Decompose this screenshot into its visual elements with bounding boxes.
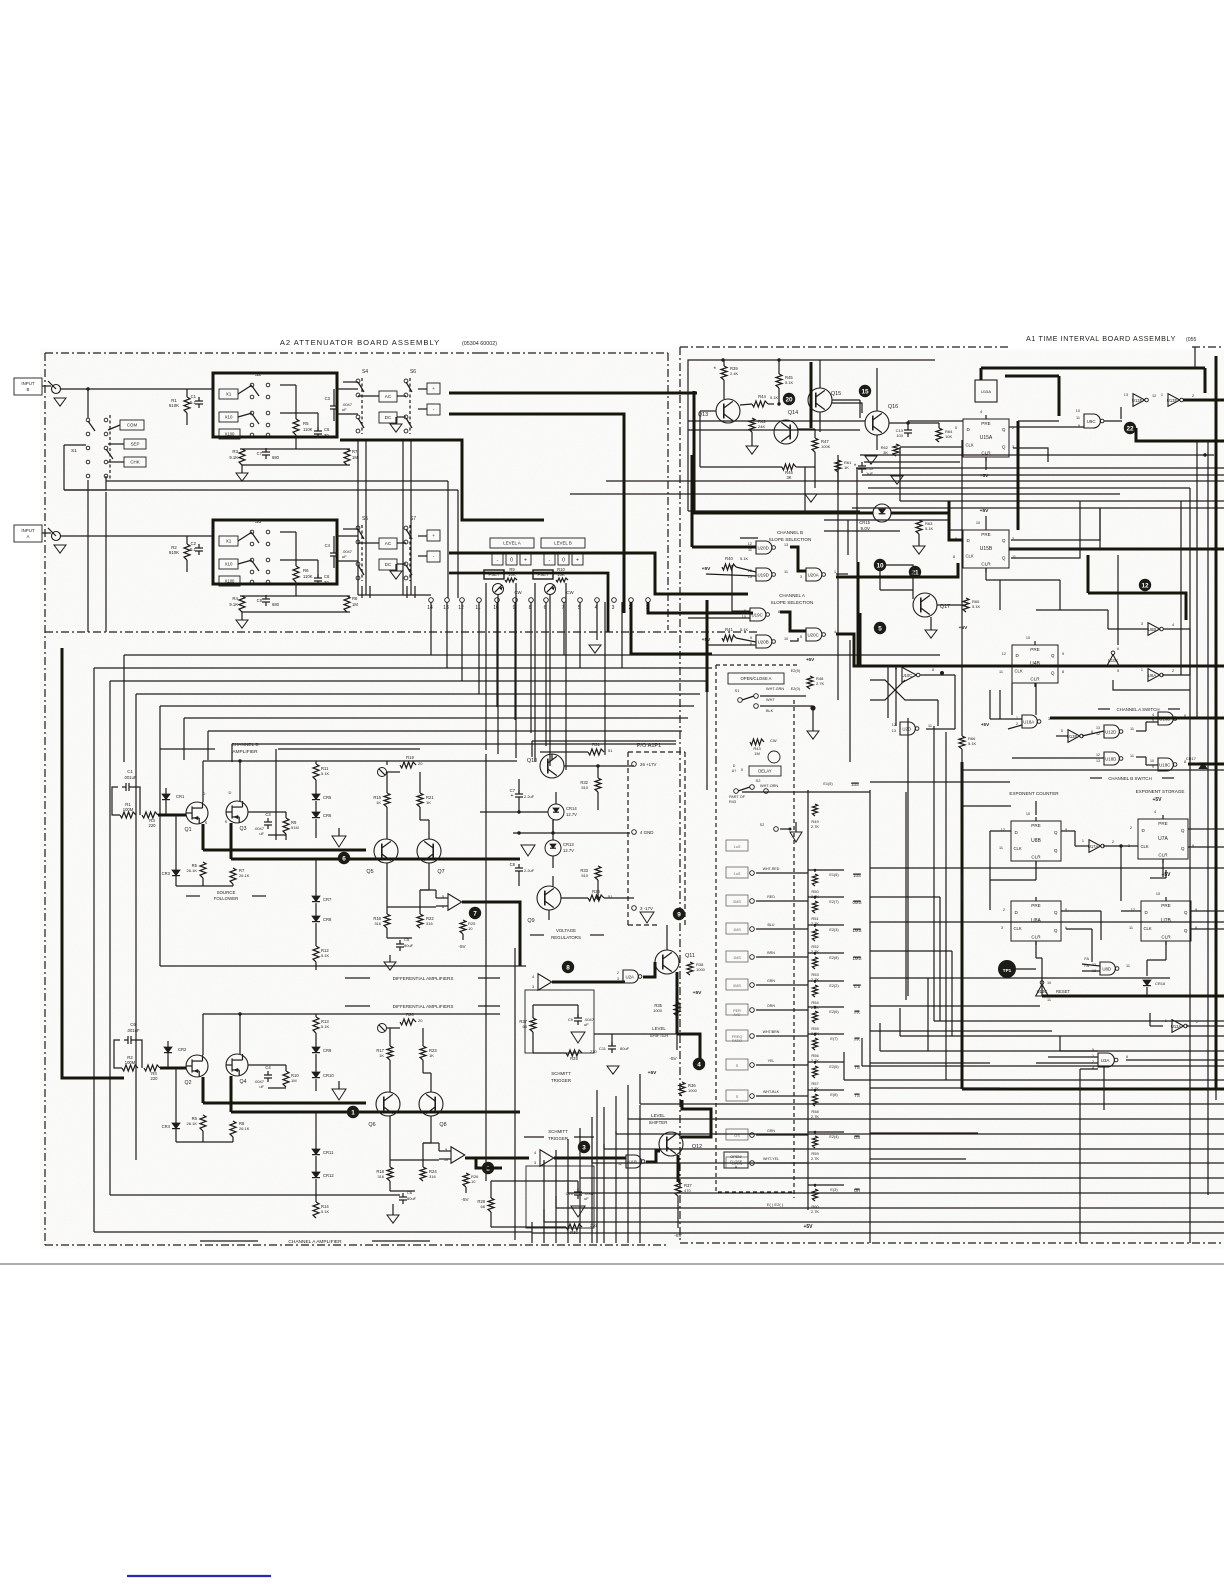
transistor Q13 — [716, 399, 740, 423]
vertical drops from E outputs — [939, 897, 941, 1021]
svg-text:EXPONENT COUNTER: EXPONENT COUNTER — [1009, 791, 1059, 796]
wires from U15B — [985, 568, 987, 580]
svg-text:R41: R41 — [725, 627, 733, 632]
svg-text:10: 10 — [1150, 759, 1154, 763]
bottom right stair stubs 2 — [933, 993, 935, 1021]
flip-flop U8B — [1011, 821, 1061, 861]
svg-text:DC: DC — [385, 562, 392, 567]
diode CR11 — [312, 1149, 320, 1155]
svg-text:5.1K: 5.1K — [321, 953, 330, 958]
svg-text:11: 11 — [1130, 727, 1134, 731]
svg-text:REGULATORS: REGULATORS — [551, 935, 581, 940]
svg-text:2: 2 — [1130, 826, 1132, 830]
svg-text:TRIGGER: TRIGGER — [548, 1136, 568, 1141]
svg-text:U18A: U18A — [1023, 720, 1034, 725]
svg-text:9: 9 — [677, 911, 681, 918]
svg-text:3: 3 — [534, 1161, 536, 1165]
wire drain rail A — [203, 1013, 360, 1015]
bold wire level A to right — [449, 553, 748, 594]
wires switch columns channel A — [361, 586, 363, 598]
svg-text:12: 12 — [1002, 652, 1006, 656]
svg-text:80uF: 80uF — [404, 943, 414, 948]
node 21 ball — [909, 566, 921, 578]
wires diff to opamp — [420, 889, 436, 891]
svg-text:+5V: +5V — [803, 1224, 813, 1230]
svg-text:CR7: CR7 — [323, 897, 332, 902]
transistor Q14 — [774, 420, 798, 444]
svg-text:U20B: U20B — [758, 640, 769, 645]
svg-text:510: 510 — [581, 873, 588, 878]
bold wires Q12 — [646, 1151, 660, 1162]
svg-text:DIFFERENTIAL AMPLIFIERS: DIFFERENTIAL AMPLIFIERS — [393, 976, 454, 981]
ground — [913, 546, 925, 554]
svg-text:CR10: CR10 — [323, 1073, 334, 1078]
svg-text:11: 11 — [784, 570, 788, 574]
wire mid vertical — [275, 749, 277, 840]
svg-text:68: 68 — [523, 1024, 528, 1029]
svg-text:X1: X1 — [226, 392, 232, 397]
bold channel B signal route — [340, 440, 544, 520]
svg-text:U13E: U13E — [1167, 398, 1178, 403]
node 4 ball — [693, 1058, 705, 1070]
inverter U13A — [1172, 1020, 1184, 1033]
resistor R11 5.1K — [313, 764, 319, 780]
svg-text:1000: 1000 — [688, 1088, 698, 1093]
bold wire terminal 2 — [631, 602, 712, 654]
svg-text:316: 316 — [374, 921, 381, 926]
svg-text:Q15: Q15 — [831, 391, 841, 397]
wire — [248, 811, 286, 813]
diode CR14 zener — [548, 804, 564, 820]
wire long horizontal y1195 — [110, 1194, 400, 1196]
svg-text:4: 4 — [532, 975, 534, 979]
svg-text:20: 20 — [418, 1018, 423, 1023]
bold horizontal 1089 — [962, 1088, 1224, 1091]
svg-text:0: 0 — [562, 557, 565, 563]
top border continuation — [248, 352, 480, 354]
diode CR13 zener — [545, 840, 561, 856]
svg-text:E2(3): E2(3) — [829, 928, 839, 932]
svg-text:10: 10 — [876, 562, 884, 569]
bold wire opamp A out — [465, 1157, 529, 1160]
svg-text:15: 15 — [861, 388, 869, 395]
svg-text:3: 3 — [1141, 622, 1143, 626]
flip-flop U4B — [1012, 645, 1058, 683]
svg-text:EXPONENT STORAGE: EXPONENT STORAGE — [1136, 789, 1185, 794]
svg-text:CHANNEL B: CHANNEL B — [777, 530, 803, 535]
capacitor C6 30 — [314, 577, 322, 579]
resistor R50 2.7K — [812, 874, 817, 886]
resistor R48 2.7K — [807, 676, 813, 689]
capacitor C3 .0047 — [330, 405, 338, 407]
svg-text:WHT-RED: WHT-RED — [763, 867, 780, 871]
svg-text:P/O A1P1: P/O A1P1 — [637, 743, 662, 749]
wires S1 verticals to lower section — [87, 480, 89, 632]
wire long horizontal y1232 — [94, 1231, 486, 1233]
svg-text:11: 11 — [1129, 926, 1133, 930]
svg-text:Q: Q — [1184, 928, 1188, 933]
svg-text:OPEN/: OPEN/ — [730, 1155, 741, 1159]
svg-text:TRIGGER: TRIGGER — [551, 1078, 571, 1083]
bus lines right mid — [900, 500, 1224, 502]
svg-text:C1: C1 — [127, 769, 133, 774]
svg-text:BLU: BLU — [768, 923, 775, 927]
bold wire opamp out — [462, 902, 520, 966]
svg-text:5.1K: 5.1K — [968, 741, 977, 746]
svg-text:13: 13 — [892, 729, 896, 733]
AC box — [379, 538, 397, 549]
svg-text:316: 316 — [429, 1174, 436, 1179]
page rule — [0, 1263, 1224, 1265]
svg-text:Q1: Q1 — [185, 827, 192, 833]
capacitor C5 30 — [314, 430, 322, 432]
svg-text:U8D: U8D — [1102, 967, 1111, 972]
bold wire source rail — [203, 849, 366, 852]
svg-text:8: 8 — [778, 610, 780, 614]
resistor R5 110K — [293, 419, 299, 435]
svg-text:A1 TIME INTERVAL BOARD ASS: A1 TIME INTERVAL BOARD ASSEMBLY — [1026, 334, 1176, 343]
capacitor C2 5.1 — [195, 547, 203, 549]
svg-text:R8: R8 — [352, 596, 358, 601]
resistor R17 1K — [387, 1046, 393, 1060]
svg-text:C6: C6 — [324, 574, 330, 579]
transistor Q2 FET — [186, 1055, 208, 1077]
verticals bottom staircase left group — [531, 1222, 533, 1243]
svg-text:1uS: 1uS — [734, 872, 741, 876]
svg-text:C4: C4 — [265, 1065, 271, 1070]
diode CR5 — [312, 794, 320, 800]
bottom staircase stubs — [639, 1074, 641, 1104]
resistor R13 5.1K — [313, 1017, 319, 1033]
pot R43 1M — [750, 739, 764, 745]
svg-text:PRE: PRE — [981, 532, 990, 537]
gate U19C — [750, 608, 766, 621]
wires — [389, 1060, 391, 1092]
wires U6 loop — [1131, 628, 1148, 630]
svg-text:7: 7 — [473, 910, 477, 917]
wire — [175, 1068, 177, 1123]
resistor R46 3K — [782, 464, 796, 470]
svg-text:PRE: PRE — [1031, 823, 1040, 828]
svg-text:E(8): E(8) — [830, 1093, 838, 1097]
svg-text:E2(7): E2(7) — [829, 900, 839, 904]
trimmer screw — [378, 768, 387, 777]
Q13 bias box outline — [688, 360, 935, 511]
capacitor C5 80uF — [396, 943, 404, 945]
transistor Q16 — [865, 411, 889, 435]
svg-text:CLK: CLK — [966, 553, 974, 558]
svg-text:3: 3 — [617, 977, 619, 981]
resistor R27 68 — [530, 1018, 536, 1032]
svg-text:12: 12 — [892, 723, 896, 727]
bold corner 860 — [859, 613, 862, 666]
node 3 ball — [578, 1141, 590, 1153]
ground — [925, 630, 937, 638]
svg-text:WHT: WHT — [766, 698, 775, 702]
svg-text:D: D — [229, 790, 232, 795]
resistor R37 470 — [675, 1182, 681, 1196]
svg-text:4: 4 — [697, 1061, 701, 1068]
svg-text:S5: S5 — [362, 516, 368, 522]
wire bold gate feed A — [160, 1067, 186, 1070]
svg-text:11: 11 — [618, 1156, 622, 1160]
wire drain rail — [203, 760, 360, 762]
node 9 ball — [673, 908, 685, 920]
svg-text:2: 2 — [1192, 394, 1194, 398]
svg-text:+5V: +5V — [806, 657, 815, 662]
svg-text:+5V: +5V — [1152, 797, 1162, 803]
resistor R29 270 — [566, 1050, 582, 1056]
resistor R14 5.1K — [313, 1202, 319, 1218]
dashed column separator — [793, 700, 795, 1198]
inverter U13E — [1168, 394, 1180, 407]
svg-text:11: 11 — [999, 846, 1003, 850]
ground — [54, 545, 66, 553]
wire long horizontal y966 — [160, 965, 526, 967]
svg-text:9: 9 — [750, 636, 752, 640]
resistor R26 10 — [463, 1173, 469, 1187]
svg-text:0MS: 0MS — [733, 900, 741, 904]
bold wire schmitt B out — [552, 981, 625, 984]
wires S1 long horizontals — [106, 480, 448, 482]
gate U18D — [1104, 752, 1119, 765]
ground — [805, 494, 817, 502]
svg-text:13: 13 — [1124, 393, 1128, 397]
diode CR17 — [1199, 763, 1207, 769]
CHK box — [124, 457, 146, 467]
long verticals to schmitt area — [596, 1090, 598, 1243]
svg-text:U18D: U18D — [1105, 757, 1116, 762]
DELAY box — [749, 766, 781, 776]
svg-text:C3: C3 — [325, 396, 331, 401]
ground open — [571, 1032, 585, 1043]
svg-text:uF: uF — [342, 407, 347, 412]
svg-text:U15B: U15B — [980, 546, 993, 552]
resistor R34 51 — [588, 895, 604, 901]
svg-text:CHANNEL A SWITCH: CHANNEL A SWITCH — [1116, 707, 1159, 712]
svg-text:-5V: -5V — [461, 1197, 469, 1202]
svg-text:Q11: Q11 — [685, 953, 695, 959]
svg-text:-5V: -5V — [458, 944, 466, 949]
svg-text:C6: C6 — [130, 1022, 136, 1027]
svg-text:YEL: YEL — [768, 1059, 775, 1063]
wires Q16 — [859, 400, 861, 418]
wires attenuator internal — [240, 595, 350, 597]
svg-text:U20A: U20A — [808, 573, 819, 578]
svg-text:U12D: U12D — [1105, 730, 1116, 735]
resistor R25 10 — [460, 920, 466, 934]
X10 box — [219, 412, 238, 422]
svg-text:WHT-YEL: WHT-YEL — [763, 1157, 779, 1161]
svg-text:CLK: CLK — [966, 442, 974, 447]
svg-text:uF: uF — [584, 1022, 589, 1027]
svg-text:Q3: Q3 — [240, 826, 247, 832]
svg-text:C8: C8 — [510, 862, 516, 867]
resistor R62 3K — [893, 444, 899, 456]
resistor R3 220 — [142, 812, 158, 818]
svg-text:270: 270 — [590, 1223, 597, 1228]
wires attenuator internal — [240, 448, 350, 450]
svg-text:S1: S1 — [735, 688, 741, 693]
svg-text:CR15: CR15 — [859, 520, 870, 525]
svg-text:R5: R5 — [303, 421, 309, 426]
inverter U10K up — [1107, 655, 1118, 665]
wire — [248, 1064, 286, 1066]
svg-text:10: 10 — [784, 637, 788, 641]
svg-text:4: 4 — [980, 410, 982, 414]
svg-text:CLR: CLR — [1161, 935, 1171, 940]
gate U18A — [1022, 715, 1037, 728]
svg-text:12: 12 — [1096, 753, 1100, 757]
ground under AC DC switches A — [390, 571, 402, 579]
resistor R7 26.1K — [230, 868, 236, 884]
resistor R38 1000 — [687, 962, 693, 975]
svg-text:WHT-BLK: WHT-BLK — [763, 1090, 780, 1094]
svg-text:13: 13 — [1096, 726, 1100, 730]
AC box — [427, 530, 440, 541]
svg-text:5.1: 5.1 — [190, 547, 196, 552]
capacitor C7 680 — [262, 451, 270, 453]
resistor R64 10K — [936, 428, 942, 442]
svg-text:1: 1 — [834, 570, 836, 574]
wires switch group — [343, 528, 358, 530]
svg-text:(055: (055 — [1186, 337, 1196, 343]
svg-text:CR8: CR8 — [323, 917, 332, 922]
svg-text:13: 13 — [443, 605, 449, 611]
svg-text:-5V: -5V — [674, 1233, 682, 1238]
wire verticals under exp — [1100, 911, 1102, 940]
svg-text:PRE: PRE — [1030, 647, 1039, 652]
svg-text:U15A: U15A — [981, 389, 991, 394]
E column vertical — [869, 790, 871, 1160]
switch S7 — [404, 526, 408, 530]
svg-text:OPEN/CLOSE A: OPEN/CLOSE A — [741, 676, 772, 681]
svg-text:6: 6 — [342, 855, 346, 862]
svg-text:S: S — [225, 819, 228, 824]
svg-text:CR17: CR17 — [1186, 756, 1197, 761]
flip-flop U7B — [1141, 901, 1191, 941]
svg-text:E2(0): E2(0) — [791, 687, 801, 691]
bold U9B connector — [1087, 555, 1090, 593]
ground open — [640, 912, 654, 923]
svg-text:5.1K: 5.1K — [321, 1209, 330, 1214]
wires to gates — [706, 574, 756, 576]
svg-text:RESET: RESET — [1056, 989, 1070, 994]
svg-text:R4: R4 — [232, 596, 238, 601]
svg-text:uF: uF — [259, 831, 264, 836]
resistor R51 2.7K — [812, 901, 817, 913]
svg-text:A: A — [27, 534, 30, 539]
transistor Q10 — [540, 754, 564, 778]
bold reset wire — [1042, 995, 1224, 998]
svg-text:U6A: U6A — [1148, 673, 1156, 678]
ground open — [332, 836, 346, 847]
svg-text:+5V: +5V — [693, 990, 702, 996]
X100 box — [219, 576, 240, 586]
resistor R15 1K — [384, 793, 390, 807]
OPEN/CLOSE A box — [728, 673, 784, 684]
svg-text:LEVEL: LEVEL — [651, 1113, 665, 1118]
svg-text:C2: C2 — [191, 541, 197, 546]
svg-text:1uS: 1uS — [734, 845, 741, 849]
wires mid right horizontals 2 — [824, 519, 948, 521]
svg-text:10: 10 — [1076, 409, 1080, 413]
svg-text:30: 30 — [324, 580, 329, 585]
svg-text:10: 10 — [976, 521, 980, 525]
svg-text:R6: R6 — [303, 568, 309, 573]
svg-text:PRE: PRE — [1161, 903, 1170, 908]
svg-text:C9: C9 — [568, 1017, 574, 1022]
gate U2A — [623, 970, 638, 983]
svg-text:Q6: Q6 — [368, 1122, 375, 1128]
resistor R21 1K — [417, 793, 423, 807]
svg-text:1K: 1K — [376, 800, 381, 805]
svg-text:+5V: +5V — [959, 625, 968, 631]
resistor R7 1M — [344, 449, 350, 465]
svg-text:9.1K: 9.1K — [229, 602, 238, 607]
resistor R54 2.7K — [812, 985, 817, 997]
svg-text:C7: C7 — [257, 451, 263, 456]
svg-text:LEVEL: LEVEL — [652, 1026, 666, 1031]
long verticals lower right — [869, 1160, 871, 1243]
svg-text:GRN: GRN — [767, 979, 775, 983]
svg-text:5.1K: 5.1K — [785, 380, 794, 385]
svg-text:Q7: Q7 — [437, 869, 444, 875]
svg-text:SCHMITT: SCHMITT — [551, 1071, 571, 1076]
wire RESET vertical — [1041, 983, 1043, 996]
resistor R47 100K — [812, 438, 818, 452]
svg-text:E( ) E2( ): E( ) E2( ) — [767, 1202, 784, 1207]
svg-text:E(3): E(3) — [830, 1188, 838, 1192]
svg-text:10: 10 — [1047, 981, 1051, 985]
svg-text:3: 3 — [800, 575, 802, 579]
svg-text:0: 0 — [510, 557, 513, 563]
inverter U17A — [1089, 840, 1101, 853]
X10 box — [219, 559, 238, 569]
resistor R23 1K — [420, 1046, 426, 1060]
svg-text:CR1: CR1 — [176, 794, 185, 799]
svg-text:R43: R43 — [729, 800, 736, 804]
svg-text:CLK: CLK — [1014, 846, 1022, 851]
svg-text:BLK: BLK — [766, 709, 774, 713]
resistor R42 24K — [749, 418, 755, 432]
svg-text:DC: DC — [385, 415, 392, 420]
svg-text:680: 680 — [272, 602, 280, 607]
svg-text:5: 5 — [800, 635, 802, 639]
capacitor C4 .0047 — [330, 552, 338, 554]
svg-text:10: 10 — [471, 1179, 476, 1184]
resistor R32 510 — [595, 778, 601, 792]
COM box — [120, 420, 144, 430]
inverter U6A — [1148, 669, 1160, 682]
svg-text:2: 2 — [1172, 669, 1174, 673]
svg-text:316: 316 — [426, 921, 433, 926]
resistor R8 26.1K — [230, 1121, 236, 1137]
svg-text:5: 5 — [741, 768, 743, 772]
input connector A — [14, 525, 42, 542]
svg-text:RED: RED — [767, 895, 775, 899]
svg-text:2.7K: 2.7K — [811, 1114, 820, 1119]
wire bundle horizontals — [124, 654, 940, 656]
svg-text:1K: 1K — [844, 465, 849, 470]
ground — [236, 473, 248, 481]
svg-text:WHT/BRN: WHT/BRN — [763, 1030, 780, 1034]
gate U12D — [1104, 725, 1119, 738]
node 5 ball — [874, 622, 886, 634]
level B label box — [541, 538, 585, 548]
svg-text:9.1K: 9.1K — [229, 455, 238, 460]
svg-text:CLR: CLR — [1031, 935, 1041, 940]
